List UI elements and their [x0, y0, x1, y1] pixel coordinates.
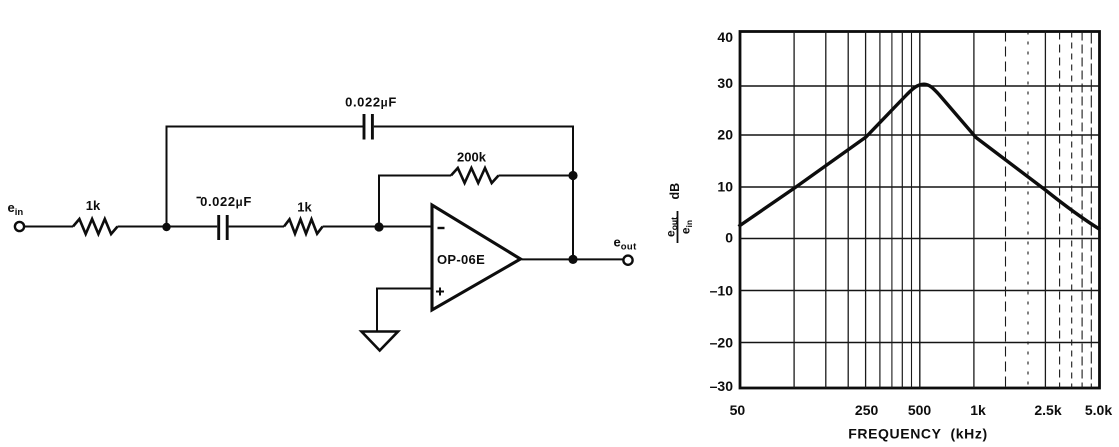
- gridline x 300: [879, 32, 881, 389]
- svg-text:–20: –20: [710, 335, 734, 351]
- svg-text:30: 30: [717, 75, 733, 91]
- gridline y 30dB: [740, 85, 1100, 87]
- chart axis label eout/ein dB (rotated): [664, 183, 695, 243]
- gridline y 0dB: [740, 238, 1100, 240]
- node C junction (feedback/output vertical): [568, 171, 577, 180]
- svg-text:1k: 1k: [297, 200, 312, 215]
- svg-text:–10: –10: [710, 283, 734, 299]
- svg-text:10: 10: [717, 179, 733, 195]
- gridline x 250: [865, 32, 867, 389]
- gridline x 500: [919, 32, 921, 389]
- gridline x 450: [911, 32, 913, 389]
- gridline x 4k: [1081, 32, 1083, 389]
- gridline y -10dB: [740, 290, 1100, 292]
- pin label plus (non-inverting input): [436, 288, 444, 296]
- gridline x 200: [847, 32, 849, 389]
- wire right vertical (top rail down to output): [572, 126, 574, 260]
- node D junction (output): [568, 255, 577, 264]
- wire node B up to 200k: [378, 175, 380, 228]
- node A junction: [162, 223, 170, 231]
- svg-text:1k: 1k: [970, 402, 986, 418]
- svg-text:50: 50: [730, 402, 746, 418]
- gridline x 2k: [1027, 32, 1029, 389]
- resistor R2: [284, 219, 323, 233]
- svg-text:2.5k: 2.5k: [1034, 402, 1061, 418]
- wire node A up to top rail: [166, 126, 168, 229]
- svg-text:1k: 1k: [86, 198, 101, 213]
- svg-text:5.0k: 5.0k: [1085, 402, 1112, 418]
- terminal e_in: [15, 222, 24, 231]
- gridline x 3.5k: [1071, 32, 1073, 389]
- gridline x 150: [825, 32, 827, 389]
- svg-text:250: 250: [855, 402, 879, 418]
- wire R1 to node A: [118, 226, 167, 228]
- resistor R3 200k: [451, 168, 499, 183]
- svg-text:dB: dB: [668, 183, 682, 200]
- op-amp U1 OP-06E: [432, 205, 521, 310]
- gridline y 10dB: [740, 186, 1100, 188]
- svg-text:0.022μF: 0.022μF: [200, 194, 252, 209]
- capacitor C1 0.022uF (series): [219, 215, 228, 240]
- wire op-amp output to e_out: [522, 258, 624, 260]
- value label 0.022uF (C1): [197, 197, 202, 199]
- gridline y -20dB: [740, 342, 1100, 344]
- svg-text:500: 500: [908, 402, 932, 418]
- gridline x 400: [901, 32, 903, 389]
- chart plot border: [740, 32, 1100, 389]
- svg-text:200k: 200k: [457, 150, 487, 165]
- terminal e_out: [623, 256, 632, 265]
- gridline x 4.5k: [1090, 32, 1092, 389]
- gridline y 20dB: [740, 134, 1100, 136]
- svg-text:20: 20: [717, 127, 733, 143]
- wire top rail left segment: [166, 126, 364, 128]
- svg-text:OP-06E: OP-06E: [437, 252, 485, 267]
- capacitor C2 0.022uF (top feedback): [364, 114, 372, 140]
- gridline x 1k: [973, 32, 975, 389]
- wire R3 to node C: [499, 175, 574, 177]
- resistor R1: [73, 219, 118, 234]
- gridline x 1.5k: [1005, 32, 1007, 389]
- svg-text:40: 40: [717, 29, 733, 45]
- wire to R3: [378, 175, 451, 177]
- svg-text:0.022μF: 0.022μF: [345, 95, 397, 110]
- svg-text:–30: –30: [710, 378, 734, 394]
- ground: [362, 332, 399, 351]
- gridline x 100: [793, 32, 795, 389]
- wire non-inverting input to ground: [377, 289, 434, 332]
- pin label minus (inverting input): [438, 227, 445, 229]
- wire input to R1: [25, 226, 73, 228]
- wire R2 to op-amp inverting input: [323, 226, 434, 228]
- wire node A to C1: [167, 226, 218, 228]
- curve: gain response: [739, 84, 1101, 229]
- gridline x 3k: [1059, 32, 1061, 389]
- node B junction (inverting input node): [374, 222, 383, 231]
- wire C1 to R2: [229, 226, 284, 228]
- svg-text:0: 0: [725, 230, 733, 246]
- gridline x 2.5k: [1044, 32, 1046, 389]
- wire top rail right segment: [374, 126, 574, 128]
- svg-text:FREQUENCY (kHz): FREQUENCY (kHz): [848, 426, 988, 442]
- gridline x 350: [891, 32, 893, 389]
